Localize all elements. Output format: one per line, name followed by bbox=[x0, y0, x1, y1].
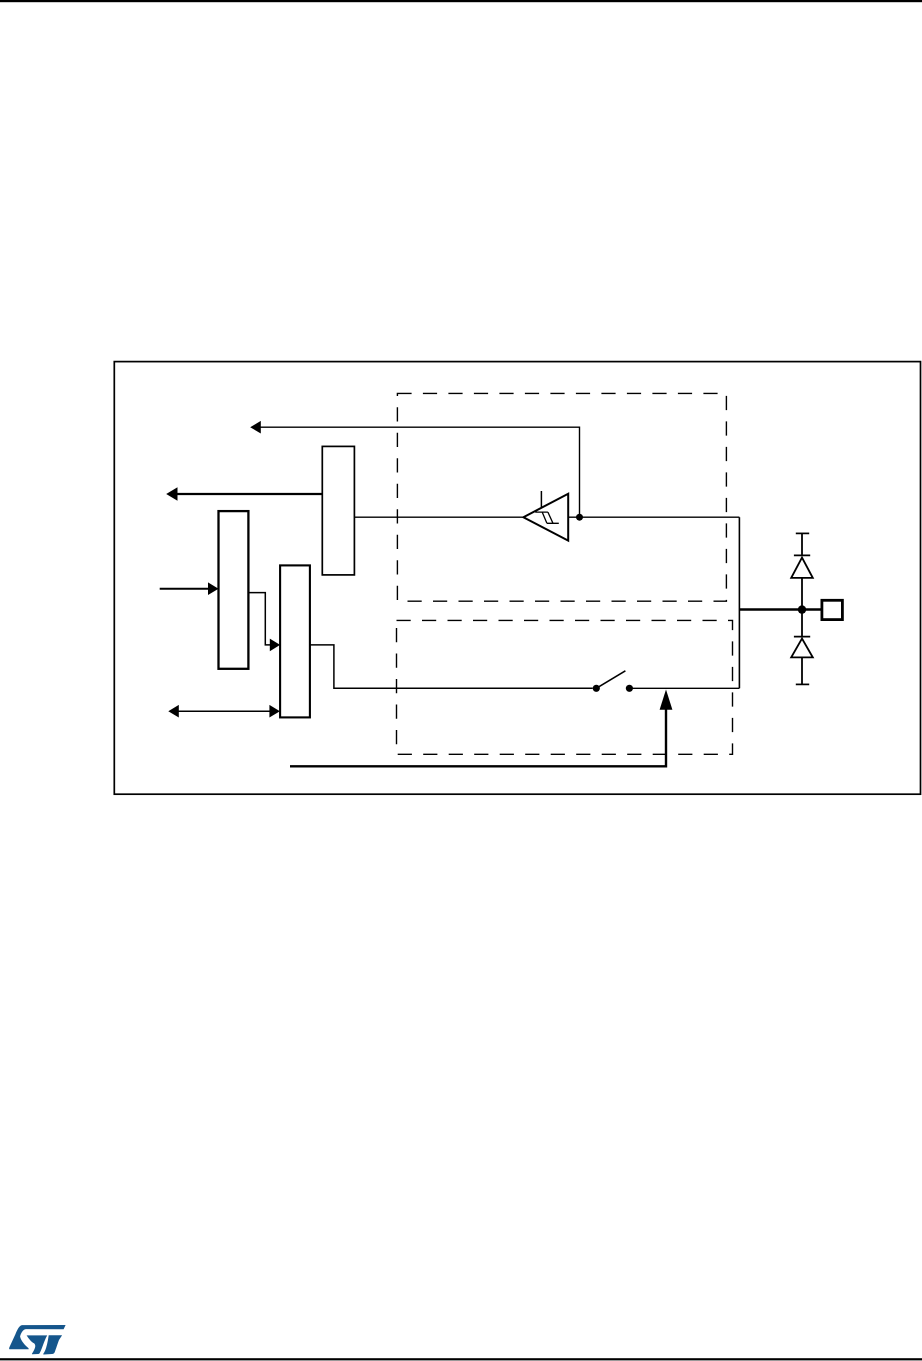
wire: pad node to lower diode bbox=[801, 610, 803, 637]
wire: read/write arrow bbox=[177, 710, 271, 712]
wire: write arrow into bit set/reset register bbox=[160, 588, 210, 590]
wire: VDD to diode bbox=[801, 533, 803, 555]
block: input data register bbox=[322, 446, 354, 575]
arrowhead: into output data register bbox=[270, 639, 280, 652]
dashed box: output driver bbox=[397, 620, 733, 754]
arrowhead: write arrow bbox=[208, 582, 219, 595]
wire: read path from schmitt node bbox=[260, 427, 580, 517]
wire: diode to pad node bbox=[801, 578, 803, 610]
protection diode to VDD cathode bar bbox=[794, 554, 810, 556]
protection diode from VSS bbox=[791, 639, 813, 658]
block: bit set/reset registers bbox=[219, 511, 249, 669]
TTL schmitt trigger bbox=[523, 494, 568, 541]
block: output data register bbox=[280, 565, 310, 717]
wire: output data register to switch bbox=[310, 645, 593, 688]
top page rule bbox=[0, 0, 922, 2]
ST logo bbox=[9, 1325, 65, 1355]
switch lever bbox=[596, 671, 625, 689]
wire: bit set/reset to output data register bbox=[248, 593, 270, 645]
node: pad junction bbox=[798, 605, 806, 613]
VSS rail bbox=[796, 683, 809, 685]
hysteresis symbol bbox=[535, 512, 559, 523]
arrowhead: on/off control bbox=[660, 690, 673, 710]
bottom page rule bbox=[0, 1358, 922, 1360]
protection diode to VDD bbox=[791, 558, 813, 578]
switch contact right bbox=[626, 685, 633, 692]
node: schmitt input junction bbox=[576, 514, 583, 521]
wire: on/off control line bbox=[290, 709, 666, 766]
schmitt trigger leader line bbox=[540, 491, 542, 507]
wire: schmitt output to input data register bbox=[354, 516, 523, 518]
dashed box: input driver bbox=[397, 393, 726, 601]
figure frame bbox=[114, 362, 920, 795]
arrowhead: read/write left bbox=[168, 705, 179, 718]
arrowhead: input register read arrow bbox=[166, 487, 177, 501]
arrowhead: read arrow bbox=[250, 421, 261, 434]
I/O pin pad bbox=[822, 600, 843, 619]
wire: diode to VSS bbox=[801, 657, 803, 684]
wire: switch to output bus bbox=[629, 687, 739, 689]
wire: right vertical bus bbox=[738, 517, 740, 688]
protection diode from VSS cathode bar bbox=[794, 636, 810, 638]
VDD rail bbox=[796, 532, 809, 534]
wire: pad connection bbox=[739, 608, 822, 611]
wire: schmitt input from bus bbox=[568, 516, 739, 518]
wire: read arrow from input data register bbox=[176, 493, 323, 495]
switch contact left bbox=[593, 685, 600, 692]
arrowhead: read/write right bbox=[269, 705, 280, 718]
